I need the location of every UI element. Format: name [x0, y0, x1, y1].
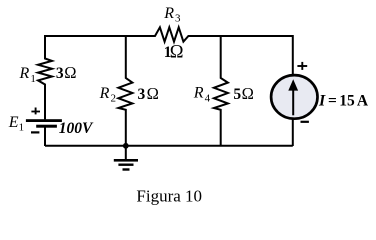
svg-text:1: 1: [30, 73, 36, 85]
svg-text:R: R: [163, 5, 174, 22]
svg-text:Ω: Ω: [64, 63, 76, 82]
svg-text:R: R: [193, 85, 204, 102]
svg-text:I: I: [318, 93, 326, 110]
svg-text:=: =: [328, 93, 337, 110]
svg-text:4: 4: [205, 93, 211, 105]
svg-text:5: 5: [233, 86, 241, 103]
svg-text:3: 3: [138, 86, 146, 103]
svg-text:3: 3: [175, 13, 181, 25]
svg-text:Ω: Ω: [147, 84, 159, 103]
svg-text:Ω: Ω: [170, 42, 184, 62]
svg-text:Ω: Ω: [242, 84, 254, 103]
svg-text:E: E: [8, 114, 19, 131]
svg-text:R: R: [99, 85, 110, 102]
svg-text:3: 3: [56, 65, 64, 82]
svg-text:R: R: [19, 65, 30, 82]
svg-text:2: 2: [111, 93, 117, 105]
svg-text:A: A: [357, 93, 369, 110]
svg-text:100V: 100V: [59, 120, 94, 137]
svg-text:Figura 10: Figura 10: [136, 187, 202, 206]
svg-text:1: 1: [19, 122, 25, 134]
svg-text:15: 15: [339, 93, 355, 110]
